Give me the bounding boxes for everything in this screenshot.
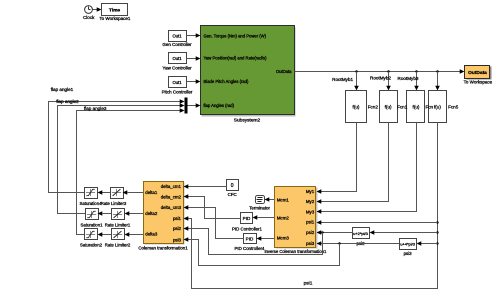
constant block CFC: [227, 180, 239, 198]
svg-text:My3: My3: [306, 210, 315, 215]
svg-text:Mcm3: Mcm3: [277, 236, 290, 241]
svg-text:RootMyb2: RootMyb2: [370, 76, 391, 81]
svg-text:RootMyb3: RootMyb3: [398, 76, 419, 81]
wire Mcm2: Inverse Coleman to PID Controller1: [253, 215, 275, 220]
svg-text:Out1: Out1: [172, 56, 182, 61]
svg-text:psi1: psi1: [306, 220, 315, 225]
bias block psi3 (u+4*pi/3): [400, 239, 417, 256]
wire delta1: Coleman transformation1 to Rate Limiter3: [123, 190, 144, 195]
svg-text:Fcn2: Fcn2: [368, 105, 379, 110]
outport block Pitch Controller: [162, 77, 193, 95]
node junction on OutData wire at Fcn5 branch: [436, 70, 438, 72]
wire branch azimuth to Fcn5: [435, 72, 440, 91]
wire flap angle1: Saturation4 to Mux input 1: [49, 87, 185, 193]
wire Pitch Controller to Subsystem2 port 3: [187, 79, 201, 84]
wire Fcn2 to My1: [317, 123, 357, 194]
wire branch RootMyb3 to Fcn: [398, 72, 419, 91]
wire Mcm1: Inverse Coleman to Terminator: [265, 197, 275, 202]
svg-text:psi3: psi3: [404, 251, 413, 256]
function block Fcn2: [346, 91, 367, 123]
wire psi3 block to Inverse Coleman psi3: [317, 241, 400, 246]
svg-text:OutData: OutData: [276, 69, 292, 74]
rate limiter block Rate Limiter2: [105, 229, 131, 248]
outport block Yaw Controller: [162, 53, 192, 71]
svg-text:To Workspace: To Workspace: [464, 80, 493, 85]
svg-text:Fcn: Fcn: [425, 105, 433, 110]
svg-text:psi3: psi3: [173, 238, 182, 243]
svg-text:PID Controller1: PID Controller1: [232, 226, 263, 231]
svg-text:Gen. Torque (Nm) and Power (W): Gen. Torque (Nm) and Power (W): [204, 33, 267, 38]
wire azimuth to psi3 bias block: [417, 241, 438, 246]
node junction psi2 branch to Coleman: [321, 231, 323, 233]
wire flap angle2: Saturation1 to Mux input 2: [56, 99, 184, 214]
wire Fcn5 azimuth trunk down and around to Coleman psi1: [184, 123, 438, 289]
svg-text:Saturation2: Saturation2: [80, 243, 103, 248]
svg-text:To Workspace1: To Workspace1: [99, 16, 130, 21]
svg-text:Blade Pitch Angles (rad): Blade Pitch Angles (rad): [204, 79, 250, 84]
wire Rate Limiter1 to Saturation1: [98, 211, 112, 216]
svg-text:PID: PID: [243, 216, 251, 221]
pid block PID Controller1: [232, 213, 263, 232]
to-workspace block To Workspace (OutData): [464, 66, 493, 85]
svg-text:Clock: Clock: [83, 15, 95, 20]
wire Mcm3: Inverse Coleman to PID Controller4: [257, 236, 275, 241]
svg-text:f(u): f(u): [434, 105, 441, 110]
block To Workspace1 (Time): [99, 4, 130, 22]
svg-text:OutData: OutData: [468, 70, 487, 76]
svg-text:Mcm1: Mcm1: [277, 197, 290, 202]
svg-text:delta_cm2: delta_cm2: [161, 195, 182, 200]
svg-text:flap Angles (rad): flap Angles (rad): [204, 103, 235, 108]
svg-text:Rate Limiter1: Rate Limiter1: [105, 222, 131, 227]
wire Rate Limiter2 to Saturation2: [98, 232, 112, 237]
wire azimuth to psi2 bias block: [370, 230, 438, 235]
svg-text:delta1: delta1: [145, 190, 158, 195]
svg-text:psi1: psi1: [304, 281, 313, 287]
svg-text:My1: My1: [306, 189, 315, 194]
svg-text:flap angle1: flap angle1: [51, 87, 74, 92]
svg-text:RootMyb1: RootMyb1: [332, 77, 353, 82]
svg-text:f(u): f(u): [385, 105, 392, 110]
svg-text:psi1: psi1: [173, 216, 182, 221]
svg-text:Inverse Coleman transformation: Inverse Coleman transformation1: [264, 249, 327, 254]
svg-text:flap angle3: flap angle3: [84, 106, 107, 111]
function block Fcn5: [429, 91, 447, 123]
subsystem block Subsystem2: [201, 26, 296, 124]
node junction on OutData wire at Fcn2 branch: [355, 70, 357, 72]
svg-text:flap angle2: flap angle2: [56, 99, 79, 104]
node junction on azimuth trunk at psi1 branch: [436, 221, 438, 223]
node junction on azimuth trunk at psi2 branch: [436, 231, 438, 233]
bias block psi2 (u+2*pi/3): [353, 228, 370, 246]
svg-text:delta_cm1: delta_cm1: [161, 184, 182, 189]
svg-text:Rate Limiter3: Rate Limiter3: [101, 201, 127, 206]
svg-text:u+2*pi/3: u+2*pi/3: [353, 231, 369, 236]
wire psi3 around to Coleman transformation1 psi3: [184, 237, 340, 265]
svg-text:psi2: psi2: [306, 230, 315, 235]
wire branch RootMyb1 to Fcn2: [332, 72, 359, 91]
wire delta3: Coleman transformation1 to Rate Limiter2: [125, 232, 144, 237]
wire Fcn1 to My2: [317, 123, 389, 204]
saturation block Saturation1: [81, 209, 104, 228]
wire flap angle3: Saturation2 to Mux input 3: [77, 106, 185, 235]
svg-text:PID: PID: [246, 236, 254, 241]
svg-text:delta2: delta2: [145, 211, 158, 216]
wire Clock to To Workspace1: [93, 7, 102, 12]
node junction psi3 branch to Coleman: [338, 242, 340, 244]
wire branch RootMyb2 to Fcn1: [370, 72, 391, 91]
svg-text:delta3: delta3: [145, 232, 158, 237]
svg-text:Out1: Out1: [172, 34, 182, 39]
pid block PID Controller4: [234, 234, 265, 251]
function block Fcn: [407, 91, 425, 123]
wire Fcn to My3: [317, 123, 417, 214]
svg-text:Time: Time: [109, 8, 121, 14]
svg-text:Terminator: Terminator: [249, 206, 270, 211]
svg-text:u+4*pi/3: u+4*pi/3: [400, 242, 416, 247]
wire Gen Controller to Subsystem2 port 1: [187, 33, 201, 38]
svg-text:Pitch Controller: Pitch Controller: [162, 89, 193, 94]
wire CFC to delta_cm1: [184, 184, 227, 189]
rate limiter block Rate Limiter3: [101, 188, 127, 207]
subsystem block Inverse Coleman transformation1: [264, 187, 327, 254]
node junction on OutData wire at Fcn branch: [415, 70, 417, 72]
svg-text:delta_cm3: delta_cm3: [161, 205, 182, 210]
svg-text:Yaw Position(rad) and Rate(rad: Yaw Position(rad) and Rate(rad/s): [204, 56, 268, 61]
wire azimuth to Inverse Coleman psi1: [317, 220, 438, 225]
svg-text:My2: My2: [306, 199, 315, 204]
saturation block Saturation2: [80, 229, 103, 248]
function block Fcn1: [380, 91, 398, 123]
node junction on OutData wire at Fcn1 branch: [387, 70, 389, 72]
svg-text:f(u): f(u): [413, 105, 420, 110]
terminator block Terminator: [249, 196, 270, 211]
rate limiter block Rate Limiter1: [105, 209, 131, 228]
wire Mux to Subsystem2 port 4: [188, 103, 201, 108]
wire psi2 around to Coleman transformation1 psi2: [184, 226, 323, 254]
node junction on azimuth trunk at psi3 branch: [436, 242, 438, 244]
svg-text:Out1: Out1: [172, 80, 182, 85]
wire OutData: Subsystem2 to To Workspace: [295, 69, 465, 74]
wire PID Controller4 to delta_cm3: [184, 205, 244, 238]
svg-text:PID Controller4: PID Controller4: [234, 246, 265, 251]
svg-text:Saturation1: Saturation1: [81, 222, 104, 227]
svg-text:Gen Controller: Gen Controller: [162, 42, 192, 47]
outport block Gen Controller: [162, 31, 192, 48]
saturation block Saturation4: [80, 188, 103, 207]
wire psi2 block to Inverse Coleman psi2: [317, 230, 353, 235]
svg-text:Saturation4: Saturation4: [80, 201, 103, 206]
svg-text:psi2: psi2: [173, 226, 182, 231]
wire delta2: Coleman transformation1 to Rate Limiter1: [125, 211, 144, 216]
svg-text:Fcn1: Fcn1: [397, 105, 408, 110]
svg-text:Mcm2: Mcm2: [277, 216, 290, 221]
svg-text:Coleman transformation1: Coleman transformation1: [138, 246, 188, 251]
wire PID Controller1 to delta_cm2: [184, 194, 241, 218]
wire Rate Limiter3 to Saturation4: [98, 190, 111, 195]
svg-text:Fcn5: Fcn5: [448, 105, 459, 110]
clock block Clock: [83, 6, 95, 20]
subsystem block Coleman transformation1: [138, 182, 188, 251]
wire Yaw Controller to Subsystem2 port 2: [187, 56, 201, 61]
svg-text:Yaw Controller: Yaw Controller: [162, 66, 192, 71]
mux Mux (flap angles): [185, 98, 188, 114]
svg-text:CFC: CFC: [228, 192, 237, 197]
svg-text:f(u): f(u): [353, 105, 360, 110]
svg-text:Rate Limiter2: Rate Limiter2: [105, 243, 131, 248]
svg-text:psi3: psi3: [306, 241, 315, 246]
svg-text:Subsystem2: Subsystem2: [234, 117, 261, 123]
svg-text:0: 0: [231, 183, 234, 189]
